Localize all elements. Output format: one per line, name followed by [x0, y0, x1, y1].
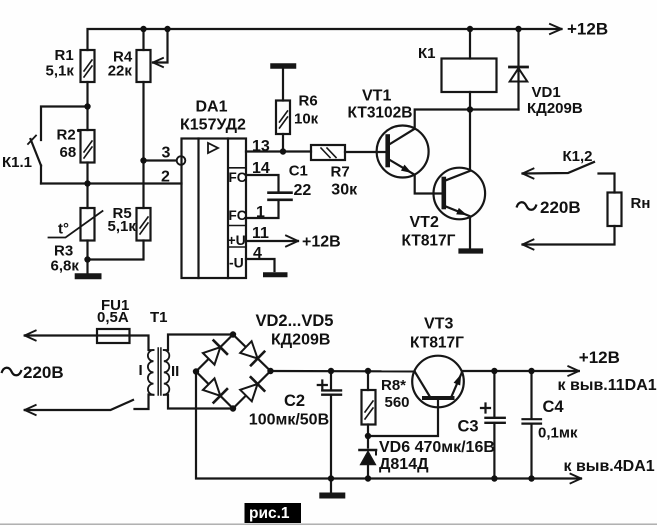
svg-text:5,1к: 5,1к [46, 63, 75, 80]
svg-text:КТ817Г: КТ817Г [410, 335, 464, 352]
svg-text:5,1к: 5,1к [108, 218, 137, 235]
svg-text:К1: К1 [418, 45, 436, 62]
svg-text:22: 22 [294, 182, 312, 199]
svg-text:R1: R1 [55, 47, 74, 64]
svg-text:220В: 220В [540, 198, 581, 217]
svg-text:II: II [171, 363, 179, 380]
svg-text:КТ3102В: КТ3102В [348, 105, 413, 122]
svg-text:Rн: Rн [631, 195, 651, 212]
svg-text:FC: FC [229, 208, 247, 223]
svg-text:VT2: VT2 [410, 214, 439, 231]
svg-text:FC: FC [229, 170, 247, 185]
svg-text:14: 14 [252, 160, 270, 177]
svg-text:3: 3 [162, 145, 171, 162]
svg-text:+12В: +12В [579, 348, 620, 367]
svg-text:VT1: VT1 [362, 88, 391, 105]
svg-text:КД209В: КД209В [271, 332, 330, 349]
svg-text:К1,2: К1,2 [563, 148, 593, 165]
svg-text:к выв.11DA1: к выв.11DA1 [558, 377, 657, 394]
svg-text:1: 1 [256, 204, 265, 221]
svg-text:DA1: DA1 [196, 99, 228, 116]
svg-text:+12В: +12В [567, 20, 608, 39]
svg-text:11: 11 [252, 225, 269, 242]
svg-text:R7: R7 [331, 164, 350, 181]
svg-text:-U: -U [229, 255, 244, 271]
svg-text:t°: t° [58, 221, 69, 238]
svg-text:к выв.4DA1: к выв.4DA1 [564, 458, 655, 475]
svg-text:10к: 10к [294, 111, 319, 128]
svg-text:220В: 220В [23, 363, 64, 382]
svg-text:С2: С2 [284, 392, 305, 410]
svg-text:30к: 30к [331, 182, 358, 199]
svg-text:VD2...VD5: VD2...VD5 [256, 312, 334, 330]
svg-text:R6: R6 [299, 93, 318, 110]
svg-text:С1: С1 [289, 163, 308, 180]
svg-text:R2: R2 [57, 127, 76, 144]
svg-text:I: I [139, 362, 143, 379]
svg-text:68: 68 [60, 144, 77, 161]
svg-text:+U: +U [228, 232, 246, 248]
svg-text:К157УД2: К157УД2 [180, 117, 246, 134]
svg-text:рис.1: рис.1 [249, 505, 290, 522]
svg-text:R8*: R8* [381, 377, 406, 394]
svg-text:+12В: +12В [302, 234, 341, 251]
svg-text:КТ817Г: КТ817Г [402, 233, 456, 250]
svg-text:22к: 22к [108, 63, 133, 80]
svg-text:4: 4 [253, 245, 262, 262]
svg-text:C4: C4 [543, 398, 565, 416]
svg-text:0,1мк: 0,1мк [538, 425, 578, 442]
svg-text:VD6 470мк/16В: VD6 470мк/16В [379, 439, 495, 456]
svg-text:560: 560 [385, 394, 410, 411]
svg-text:6,8к: 6,8к [51, 258, 80, 275]
svg-text:КД209В: КД209В [527, 100, 583, 117]
svg-text:К1.1: К1.1 [2, 154, 32, 171]
svg-text:2: 2 [161, 169, 170, 186]
svg-text:13: 13 [252, 138, 270, 155]
svg-text:VD1: VD1 [532, 84, 561, 101]
svg-text:Д814Д: Д814Д [379, 456, 429, 473]
svg-text:100мк/50В: 100мк/50В [249, 412, 329, 429]
svg-text:VT3: VT3 [424, 316, 453, 333]
svg-text:С3: С3 [458, 418, 479, 436]
svg-text:0,5А: 0,5А [97, 309, 129, 326]
svg-text:Т1: Т1 [150, 309, 168, 326]
